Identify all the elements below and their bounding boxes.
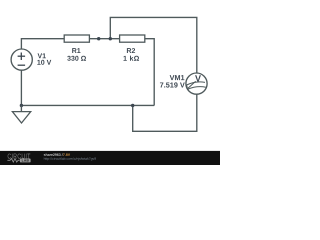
label R2	[127, 48, 135, 53]
wire from R2 right down to bottom rail	[145, 39, 154, 106]
wire bottom rail	[21, 104, 154, 106]
CircuitLab logo: CIRCUIT	[8, 154, 31, 159]
label VM1	[170, 75, 185, 80]
footer bar	[0, 151, 220, 165]
resistor R2	[120, 35, 145, 42]
footer share name	[44, 153, 63, 156]
footer url	[44, 157, 96, 160]
wire riser from V1 plus terminal up to rail	[21, 39, 64, 49]
ground	[12, 105, 30, 123]
node dot after R1	[97, 37, 100, 40]
footer share value	[63, 153, 70, 155]
voltmeter VM1	[186, 73, 207, 94]
node dot at voltmeter-return tee	[131, 104, 134, 107]
voltmeter V glyph	[195, 75, 201, 81]
wire branch: junction up and across top to voltmeter plus	[110, 17, 197, 73]
voltage source V1	[11, 49, 32, 70]
node dot at top-branch tee	[109, 37, 112, 40]
resistor R1	[64, 35, 89, 42]
CircuitLab logo: waveform	[7, 159, 19, 163]
label R1	[72, 48, 80, 53]
wire voltmeter return: junction down, across, up to voltmeter minus	[133, 94, 197, 131]
wire rail between R1 and R2	[89, 38, 119, 40]
wire V1 minus terminal down to ground junction	[20, 70, 22, 105]
node dot at ground tee	[20, 104, 23, 107]
CircuitLab logo: LAB badge	[20, 159, 31, 163]
label V1	[38, 53, 46, 58]
value 10 V	[37, 60, 51, 65]
value 1 kohm	[124, 56, 140, 61]
reading 7.519 V	[160, 82, 185, 87]
value 330 ohm	[67, 56, 86, 61]
